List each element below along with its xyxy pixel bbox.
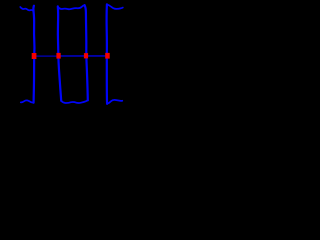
wire: vertical conductor 4 [105, 4, 108, 104]
node junction dot 4 [105, 53, 110, 59]
node junction dot 2 [56, 53, 60, 59]
wire: left continuation squiggle (top) [20, 7, 33, 11]
wire: horizontal bus (segment node 2 to node 4) [58, 55, 108, 57]
wire: left continuation squiggle (bottom) [21, 100, 34, 102]
wire: vertical conductor 2 [58, 6, 61, 100]
wire: right continuation curve (top) [107, 5, 123, 9]
wire: wavy bottom connection between conductor 2 and 3 [61, 100, 88, 103]
wire: right continuation curve (bottom) [107, 100, 122, 104]
wire: vertical conductor 3 [85, 5, 88, 100]
node junction dot 3 [84, 53, 88, 58]
wire: horizontal bus (segment node 1 to node 2) [33, 55, 58, 57]
wire: vertical conductor 1 [33, 6, 34, 103]
node junction dot 1 [32, 53, 37, 59]
wire: wavy top connection between conductor 2 and 3 [58, 5, 85, 9]
